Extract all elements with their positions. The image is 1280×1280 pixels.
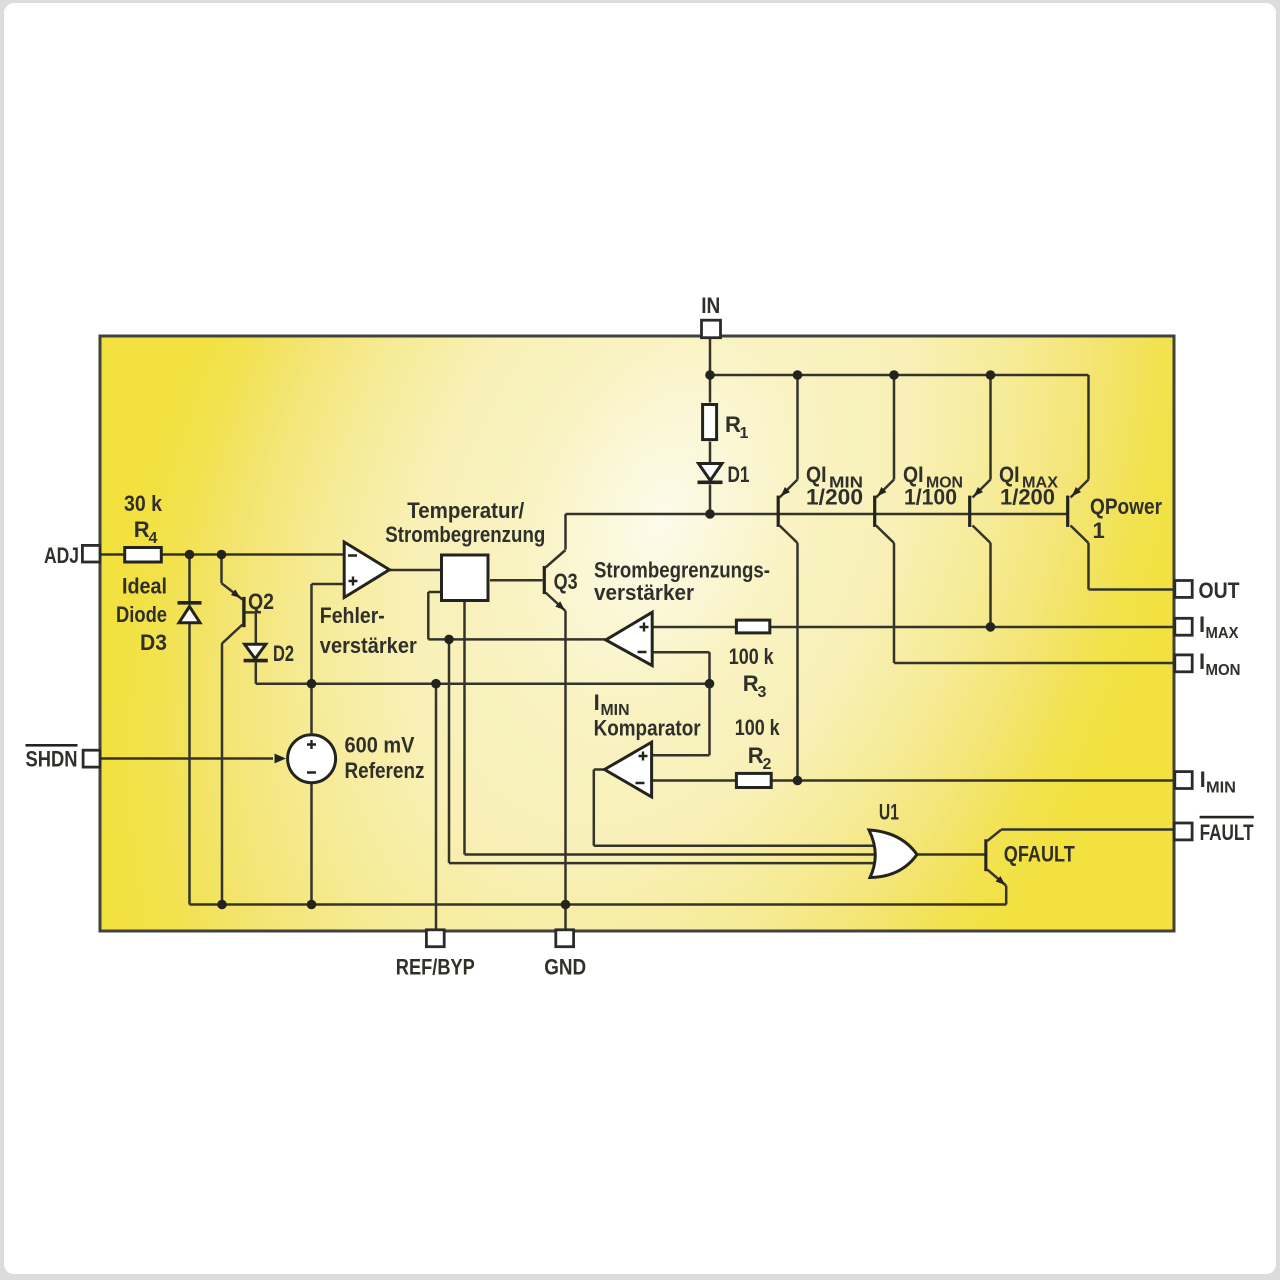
svg-text:U1: U1	[879, 800, 899, 825]
svg-text:QI: QI	[903, 462, 924, 487]
svg-text:QPower: QPower	[1090, 494, 1162, 519]
diode D1	[699, 464, 723, 481]
wire SHDN	[101, 757, 273, 760]
ideal diode D3	[178, 601, 202, 605]
temperature/current-limit block	[442, 555, 489, 601]
junction limit amp output branch	[444, 635, 454, 645]
junction IN top rail	[705, 370, 715, 380]
wire U1 output	[917, 853, 985, 856]
junction reference plus	[307, 679, 317, 689]
junction ADJ D3	[185, 550, 195, 560]
junction comparator plus tap	[705, 679, 715, 689]
junction QIMIN emitter	[793, 370, 803, 380]
junction QIMAX emitter	[986, 370, 996, 380]
svg-text:D3: D3	[140, 630, 167, 655]
svg-text:1: 1	[740, 425, 749, 442]
svg-text:SHDN: SHDN	[26, 747, 78, 772]
wire limit box stub	[428, 592, 440, 639]
pin OUT	[1175, 581, 1192, 598]
transistor Q2	[222, 583, 246, 643]
svg-text:Diode: Diode	[116, 602, 167, 627]
OR gate U1	[869, 830, 917, 878]
svg-text:OUT: OUT	[1199, 578, 1240, 603]
svg-text:100 k: 100 k	[729, 644, 775, 669]
arrow SHDN into reference	[275, 754, 287, 764]
pin IMAX	[1175, 618, 1192, 635]
svg-text:I: I	[1199, 649, 1205, 674]
svg-text:MIN: MIN	[1206, 780, 1236, 797]
resistor R3	[736, 620, 769, 633]
svg-text:R: R	[134, 517, 150, 542]
svg-text:MON: MON	[1206, 662, 1241, 679]
wire REF/BYP	[435, 684, 438, 931]
svg-text:D1: D1	[728, 462, 750, 487]
svg-text:MAX: MAX	[1206, 625, 1239, 642]
svg-text:I: I	[1199, 612, 1205, 637]
wire limit box bottom to U1	[465, 602, 881, 855]
svg-text:100 k: 100 k	[735, 715, 781, 740]
svg-text:30 k: 30 k	[124, 491, 163, 516]
pin ADJ	[82, 545, 100, 562]
wire OUT net	[1089, 543, 1174, 590]
svg-text:Komparator: Komparator	[594, 716, 701, 741]
transistor QPower	[1066, 480, 1088, 544]
svg-text:QI: QI	[806, 462, 827, 487]
transistor QIMON	[873, 480, 894, 544]
transistor QFAULT	[984, 830, 1006, 886]
resistor R2	[736, 773, 771, 787]
wire R1 to D1	[709, 442, 712, 464]
svg-text:ADJ: ADJ	[44, 543, 79, 568]
op-amp current limit amplifier	[606, 612, 652, 665]
svg-text:QFAULT: QFAULT	[1004, 841, 1075, 866]
svg-text:Q3: Q3	[554, 569, 578, 594]
svg-text:FAULT: FAULT	[1200, 820, 1254, 845]
pin FAULT	[1174, 823, 1192, 840]
svg-text:Strombegrenzungs-: Strombegrenzungs-	[594, 558, 770, 583]
junction D1 base rail	[705, 509, 715, 519]
transistor Q3	[543, 550, 566, 611]
wire FAULT	[1001, 828, 1173, 831]
resistor R4	[125, 548, 162, 563]
svg-text:1: 1	[1093, 518, 1105, 543]
wire IN net and top rail with emitter drops	[710, 338, 1089, 480]
junction ADJ Q2	[217, 550, 227, 560]
resistor R1	[703, 405, 717, 440]
junction QIMON emitter	[889, 370, 899, 380]
svg-text:I: I	[594, 690, 600, 715]
svg-text:I: I	[1200, 767, 1206, 792]
pin SHDN	[83, 750, 100, 767]
svg-text:R: R	[748, 743, 764, 768]
wire ground bus net	[190, 611, 1007, 931]
pin REF/BYP	[426, 930, 444, 947]
svg-text:1/200: 1/200	[806, 485, 863, 510]
pin IMIN	[1175, 772, 1192, 789]
wire Q2 base to D2	[246, 612, 256, 644]
wire IMON net	[894, 543, 1173, 663]
svg-text:R: R	[743, 671, 759, 696]
svg-text:GND: GND	[544, 954, 586, 979]
op-amp error amplifier	[344, 542, 389, 598]
pin IMON	[1175, 655, 1192, 672]
svg-text:4: 4	[149, 530, 158, 547]
svg-text:Temperatur/: Temperatur/	[407, 498, 524, 523]
wire IMAX net	[652, 543, 1173, 627]
junction ground Q3 GND	[561, 900, 571, 910]
svg-text:D2: D2	[273, 641, 294, 666]
svg-text:1/200: 1/200	[1000, 485, 1055, 510]
junction QIMAX collector IMAX	[986, 622, 996, 632]
diode D2	[245, 644, 266, 659]
svg-text:Strombegrenzung: Strombegrenzung	[385, 522, 545, 547]
wire current limit amp output net	[428, 639, 879, 863]
svg-text:Ideal: Ideal	[122, 574, 167, 599]
wire error amp output to limit box	[390, 569, 441, 572]
svg-text:QI: QI	[999, 462, 1020, 487]
wire comparator output to U1	[594, 770, 878, 846]
svg-text:REF/BYP: REF/BYP	[396, 954, 475, 979]
wire limit box to Q3 base	[490, 579, 543, 582]
junction ground reference	[307, 900, 317, 910]
wire IMIN net	[652, 543, 1174, 781]
transistor QIMIN	[777, 480, 798, 544]
junction REF/BYP tap	[431, 679, 441, 689]
junction ground Q2	[217, 900, 227, 910]
wire ADJ net	[101, 555, 344, 602]
svg-text:2: 2	[763, 756, 772, 773]
wire reference distribution net	[256, 584, 710, 755]
IC body	[100, 336, 1174, 931]
reference source 600 mV	[288, 735, 336, 783]
junction QIMIN collector IMIN	[793, 776, 803, 786]
wire D1 to base rail and base rail to Q3 collector	[566, 485, 1069, 550]
svg-text:Referenz: Referenz	[345, 758, 425, 783]
svg-text:600 mV: 600 mV	[345, 733, 415, 758]
svg-text:3: 3	[758, 684, 767, 701]
svg-text:verstärker: verstärker	[594, 580, 694, 605]
pin IN	[702, 320, 721, 338]
pin GND	[556, 930, 574, 947]
comparator IMIN	[605, 742, 652, 797]
svg-text:Q2: Q2	[248, 589, 274, 614]
svg-text:IN: IN	[701, 293, 720, 318]
svg-text:Fehler-: Fehler-	[320, 603, 385, 628]
svg-text:verstärker: verstärker	[320, 633, 417, 658]
svg-text:1/100: 1/100	[904, 485, 957, 510]
transistor QIMAX	[968, 480, 990, 544]
